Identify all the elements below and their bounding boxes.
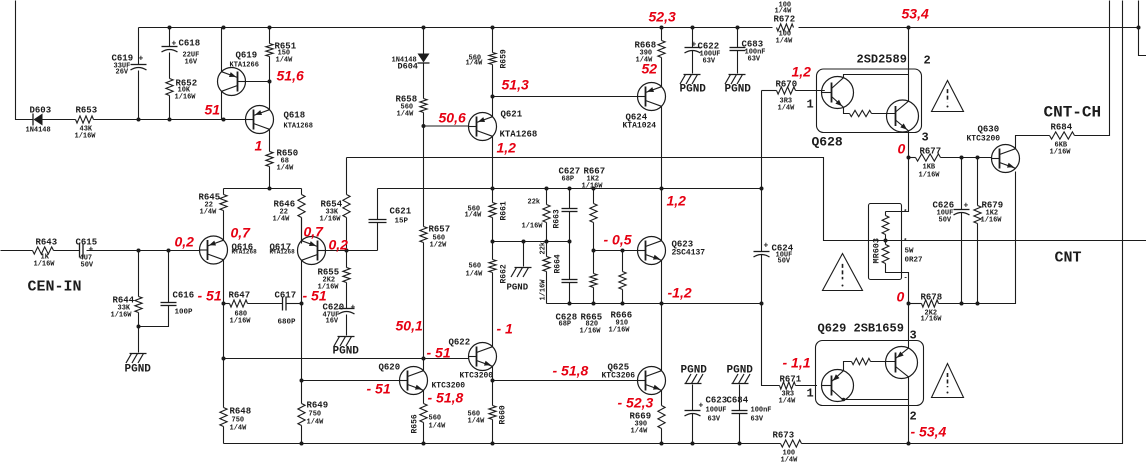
svg-text:1/16W: 1/16W [981, 217, 1003, 225]
svg-text:1/4W: 1/4W [230, 425, 248, 433]
svg-text:50,6: 50,6 [439, 110, 466, 126]
svg-text:16V: 16V [185, 59, 198, 67]
svg-text:1/16W: 1/16W [230, 318, 252, 326]
svg-text:560: 560 [469, 263, 482, 271]
svg-text:R671: R671 [780, 375, 802, 385]
svg-text:KTA1268: KTA1268 [500, 130, 538, 140]
svg-text:R662: R662 [500, 264, 509, 283]
svg-text:51: 51 [205, 102, 221, 118]
svg-text:- 53,4: - 53,4 [911, 424, 947, 440]
svg-text:100UF: 100UF [706, 407, 727, 415]
svg-text:100P: 100P [175, 309, 194, 317]
svg-text:R663: R663 [553, 209, 562, 228]
svg-text:+: + [764, 242, 769, 251]
svg-text:63V: 63V [748, 56, 761, 64]
svg-text:KTA1268: KTA1268 [270, 249, 296, 256]
svg-text:0: 0 [897, 289, 905, 305]
svg-text:PGND: PGND [507, 283, 529, 293]
svg-text:1,2: 1,2 [497, 140, 517, 156]
svg-text:52: 52 [642, 61, 658, 77]
svg-text:+: + [692, 41, 697, 50]
svg-text:1: 1 [807, 387, 814, 401]
svg-text:R678: R678 [921, 293, 943, 303]
svg-text:22k: 22k [528, 199, 541, 207]
svg-text:1/4W: 1/4W [397, 111, 415, 119]
svg-text:CEN-IN: CEN-IN [28, 279, 82, 296]
svg-text:1/4W: 1/4W [781, 457, 799, 465]
svg-text:1/16W: 1/16W [919, 172, 941, 180]
svg-text:1/16W: 1/16W [1050, 149, 1072, 157]
svg-text:+: + [172, 40, 177, 49]
svg-text:- 52,3: - 52,3 [618, 395, 654, 411]
svg-text:1/16W: 1/16W [75, 133, 97, 141]
svg-text:750: 750 [232, 417, 245, 425]
svg-text:+: + [139, 55, 144, 64]
svg-text:2SC4137: 2SC4137 [672, 249, 706, 258]
svg-text:KTC3200: KTC3200 [460, 372, 494, 381]
svg-text:PGND: PGND [680, 84, 707, 96]
svg-text:1/4W: 1/4W [468, 418, 486, 426]
svg-text:- 51: - 51 [303, 288, 327, 304]
svg-text:KTC3200: KTC3200 [967, 135, 1001, 144]
svg-text:R664: R664 [554, 254, 563, 273]
svg-text:1,2: 1,2 [667, 193, 687, 209]
svg-text:KTA1268: KTA1268 [232, 249, 258, 256]
svg-text:1/16W: 1/16W [175, 94, 197, 102]
svg-text:Q618: Q618 [284, 111, 306, 121]
svg-text:0,2: 0,2 [329, 237, 349, 253]
svg-text:15P: 15P [395, 218, 409, 226]
svg-text:100nF: 100nF [751, 407, 772, 415]
svg-text:+: + [351, 304, 356, 313]
svg-text:- 51,8: - 51,8 [428, 390, 464, 406]
svg-text:C617: C617 [275, 291, 297, 301]
svg-text:1/16W: 1/16W [522, 223, 544, 231]
svg-text:68P: 68P [559, 321, 572, 329]
svg-text:560: 560 [429, 415, 442, 423]
svg-text:1/4W: 1/4W [429, 423, 447, 431]
svg-text:CNT-CH: CNT-CH [1044, 104, 1102, 122]
svg-text:22k: 22k [540, 242, 548, 255]
svg-text:R670: R670 [776, 80, 798, 90]
svg-text:C621: C621 [390, 207, 412, 217]
svg-text:R657: R657 [429, 225, 451, 235]
svg-text:50,1: 50,1 [396, 318, 423, 334]
svg-text:- 1,1: - 1,1 [783, 355, 811, 371]
svg-text:R673: R673 [773, 431, 795, 441]
svg-text:50V: 50V [778, 258, 791, 266]
svg-text:R656: R656 [411, 414, 420, 433]
svg-text:Q619: Q619 [236, 51, 258, 61]
svg-text:R649: R649 [307, 401, 329, 411]
svg-text:-: - [904, 275, 908, 283]
svg-text:PGND: PGND [725, 84, 752, 96]
svg-text:C615: C615 [76, 238, 98, 248]
svg-text:50V: 50V [81, 262, 94, 270]
svg-text:Q629 2SB1659: Q629 2SB1659 [818, 322, 904, 336]
svg-text:D604: D604 [398, 62, 418, 72]
svg-text:- 51: - 51 [198, 288, 222, 304]
svg-text:KTA1268: KTA1268 [284, 123, 313, 131]
svg-text:R661: R661 [500, 201, 509, 220]
svg-text:1/2W: 1/2W [430, 242, 448, 250]
svg-text:0,2: 0,2 [175, 234, 195, 250]
svg-text:KTA1024: KTA1024 [623, 122, 657, 131]
svg-text:+: + [89, 246, 94, 255]
svg-text:1/4W: 1/4W [466, 60, 484, 68]
svg-text:MR603: MR603 [872, 238, 882, 264]
svg-text:52,3: 52,3 [649, 9, 676, 25]
svg-text:2: 2 [910, 410, 917, 424]
svg-text:68P: 68P [562, 176, 575, 184]
svg-text:R677: R677 [920, 147, 942, 157]
svg-text:PGND: PGND [125, 364, 152, 376]
svg-text:63V: 63V [708, 416, 721, 424]
svg-text:R647: R647 [229, 291, 251, 301]
svg-text:5W: 5W [905, 248, 915, 256]
svg-text:R653: R653 [76, 106, 98, 116]
svg-text:Q628: Q628 [812, 135, 843, 150]
svg-text:Q620: Q620 [379, 363, 401, 373]
svg-text:51,3: 51,3 [502, 77, 529, 93]
svg-text:- 1: - 1 [497, 321, 514, 337]
svg-text:R672: R672 [774, 15, 796, 25]
svg-text:PGND: PGND [681, 365, 708, 377]
svg-text:R659: R659 [500, 49, 509, 68]
svg-text:1/16W: 1/16W [540, 279, 548, 301]
svg-text:1/4W: 1/4W [776, 38, 794, 46]
svg-text:1KB: 1KB [923, 164, 936, 172]
svg-text:1/4W: 1/4W [200, 209, 218, 217]
svg-text:- 0,5: - 0,5 [604, 232, 632, 248]
svg-text:1: 1 [807, 98, 814, 112]
svg-text:1/4W: 1/4W [779, 398, 797, 406]
svg-text:Q621: Q621 [501, 110, 523, 120]
svg-text:*: * [904, 209, 908, 216]
svg-text:1/4W: 1/4W [277, 165, 295, 173]
svg-text:2SD2589: 2SD2589 [857, 53, 907, 67]
svg-text:1/4W: 1/4W [273, 216, 291, 224]
svg-text:1/4W: 1/4W [778, 105, 796, 113]
svg-text:Q622: Q622 [449, 338, 471, 348]
svg-text:R684: R684 [1051, 123, 1073, 133]
svg-text:Q630: Q630 [978, 125, 1000, 135]
svg-text:R643: R643 [36, 238, 58, 248]
svg-text:750: 750 [309, 411, 322, 419]
svg-text:1/4W: 1/4W [276, 57, 294, 65]
svg-text:0,7: 0,7 [231, 225, 252, 241]
svg-text:CNT: CNT [1055, 250, 1082, 267]
svg-text:+: + [964, 202, 969, 211]
svg-text:1/4W: 1/4W [631, 428, 649, 436]
svg-text:3: 3 [922, 131, 929, 145]
svg-text:1/4W: 1/4W [466, 271, 484, 279]
svg-text:1/16W: 1/16W [921, 316, 943, 324]
svg-text:63V: 63V [703, 58, 716, 66]
svg-text:1/16W: 1/16W [609, 327, 631, 335]
svg-text:1/16W: 1/16W [580, 328, 602, 336]
svg-text:1/4W: 1/4W [307, 419, 325, 427]
svg-text:51,6: 51,6 [277, 68, 304, 84]
svg-text:C684: C684 [727, 396, 749, 406]
svg-text:0: 0 [898, 141, 906, 157]
svg-text:- 51: - 51 [427, 345, 451, 361]
svg-text:50V: 50V [939, 217, 952, 225]
svg-text:63V: 63V [751, 416, 764, 424]
svg-text:0,7: 0,7 [304, 224, 325, 240]
svg-text:+: + [699, 402, 704, 411]
svg-text:1/16W: 1/16W [320, 216, 342, 224]
svg-text:KTC3206: KTC3206 [602, 372, 636, 381]
svg-text:- 51,8: - 51,8 [553, 363, 589, 379]
svg-text:680P: 680P [278, 319, 297, 327]
svg-text:2: 2 [924, 54, 931, 68]
svg-text:53,4: 53,4 [902, 6, 929, 22]
svg-text:R660: R660 [499, 405, 508, 424]
svg-text:1/16W: 1/16W [582, 183, 604, 191]
svg-text:0R27: 0R27 [905, 257, 923, 265]
svg-text:-1,2: -1,2 [668, 285, 692, 301]
svg-text:1/4W: 1/4W [465, 212, 483, 220]
svg-text:C623: C623 [706, 396, 728, 406]
svg-text:26V: 26V [116, 69, 129, 77]
svg-text:C618: C618 [179, 39, 201, 49]
svg-text:D603: D603 [30, 106, 52, 116]
svg-text:KTA1266: KTA1266 [230, 62, 259, 70]
svg-text:R648: R648 [230, 407, 252, 417]
svg-text:1,2: 1,2 [792, 64, 812, 80]
svg-text:- 51: - 51 [367, 381, 391, 397]
svg-text:PGND: PGND [727, 365, 754, 377]
svg-text:1: 1 [255, 138, 263, 154]
svg-text:1N4148: 1N4148 [26, 127, 51, 135]
svg-text:16V: 16V [326, 318, 339, 326]
svg-text:3: 3 [910, 329, 917, 343]
svg-text:C616: C616 [173, 291, 195, 301]
svg-text:PGND: PGND [333, 346, 360, 358]
svg-text:1/16W: 1/16W [34, 261, 56, 269]
svg-text:1/16W: 1/16W [111, 312, 133, 320]
svg-text:*: * [904, 238, 908, 245]
